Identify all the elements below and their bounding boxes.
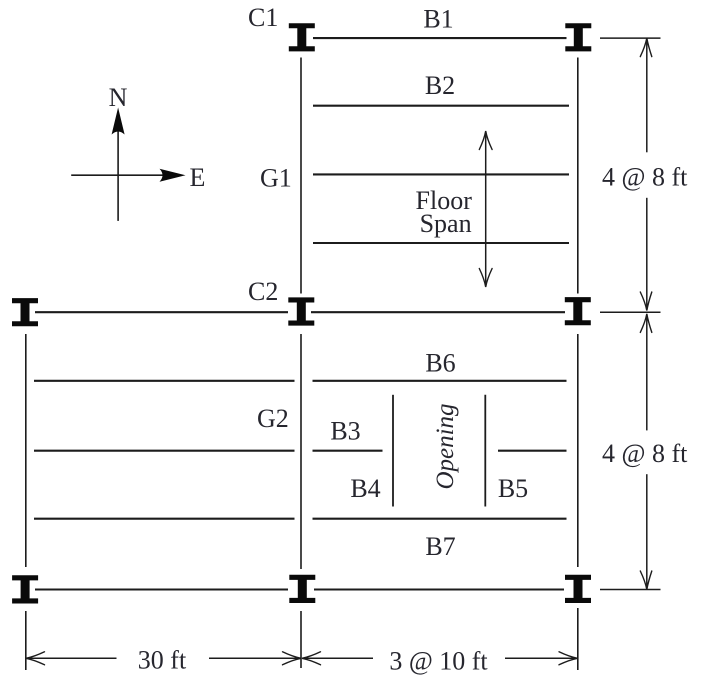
left bay beam row 3	[34, 518, 295, 520]
right dimension line upper span	[640, 38, 652, 310]
svg-text:C2: C2	[248, 277, 278, 306]
svg-text:C1: C1	[248, 3, 278, 32]
column C1	[289, 23, 315, 51]
dimension tick at bottom row	[600, 589, 661, 591]
beam B6	[313, 380, 567, 382]
svg-text:30 ft: 30 ft	[138, 646, 187, 675]
dimension tick at C2 row	[600, 311, 661, 313]
column bottom-right	[565, 575, 591, 603]
floor span arrow	[479, 131, 492, 287]
svg-text:B6: B6	[425, 349, 455, 378]
svg-text:B7: B7	[425, 532, 455, 561]
column bottom-left	[12, 575, 38, 603]
svg-text:G2: G2	[257, 404, 289, 433]
column C2	[288, 297, 314, 325]
column grid line right (top bay)	[577, 58, 579, 294]
column mid-right	[565, 297, 591, 325]
north arrow	[112, 108, 125, 221]
svg-text:N: N	[109, 83, 128, 112]
bottom extension line right	[577, 608, 579, 670]
mid column grid line (lower bay)	[300, 334, 302, 569]
beam B5 line	[498, 450, 567, 452]
svg-text:G1: G1	[260, 164, 292, 193]
svg-text:B3: B3	[330, 417, 360, 446]
beam B1	[313, 37, 567, 39]
svg-text:Opening: Opening	[432, 403, 459, 489]
bottom girder row (left segment)	[35, 588, 288, 590]
column grid line mid (C1 to C2)	[300, 58, 302, 294]
svg-text:E: E	[190, 163, 206, 192]
column bottom-mid	[289, 575, 315, 603]
svg-text:Span: Span	[420, 209, 472, 238]
svg-text:4 @ 8 ft: 4 @ 8 ft	[602, 163, 688, 192]
svg-text:B5: B5	[498, 474, 528, 503]
bottom girder row (right segment)	[314, 588, 564, 590]
svg-text:3 @ 10 ft: 3 @ 10 ft	[389, 647, 488, 676]
left bay beam row 2	[34, 450, 295, 452]
beam B2	[313, 105, 569, 107]
left column grid line (lower bay)	[25, 334, 27, 567]
beam row under G1	[313, 242, 569, 244]
column mid-left	[12, 298, 38, 326]
column top-right	[565, 23, 591, 51]
dimension tick at B1 row	[600, 37, 661, 39]
svg-text:4 @ 8 ft: 4 @ 8 ft	[602, 439, 688, 468]
beam B7	[313, 518, 567, 520]
bottom extension line left	[25, 611, 27, 670]
opening left edge	[392, 395, 394, 507]
beam B3/B4 line	[313, 450, 383, 452]
dimension 3 @ 10 ft line	[302, 652, 578, 665]
east arrow	[71, 169, 185, 182]
right dimension line lower span	[640, 314, 652, 590]
svg-text:B2: B2	[425, 71, 455, 100]
girder row at C2 (right segment)	[311, 311, 565, 313]
girder G1 line	[313, 173, 569, 175]
svg-text:B1: B1	[423, 5, 453, 34]
bottom extension line mid	[300, 611, 302, 668]
left bay beam row 1	[34, 380, 295, 382]
dimension 30 ft line	[26, 652, 301, 665]
girder row at C2 (left segment)	[35, 311, 288, 313]
opening right edge	[484, 395, 486, 507]
svg-text:B4: B4	[350, 474, 380, 503]
right column grid line (lower bay)	[577, 334, 579, 567]
